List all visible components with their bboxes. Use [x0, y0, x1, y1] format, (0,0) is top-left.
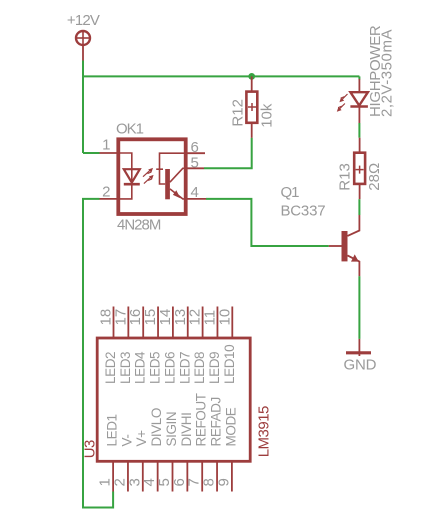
OK1 pin 1 — [100, 137, 118, 154]
label BC337 — [281, 202, 326, 219]
label LM3915 — [256, 406, 273, 457]
OK1 light arrows — [143, 168, 154, 184]
svg-text:10: 10 — [216, 309, 233, 326]
U3 top pin numbers — [98, 309, 234, 326]
svg-text:OK1: OK1 — [116, 121, 144, 138]
label 10k — [258, 103, 275, 128]
supply +12V — [67, 12, 100, 61]
wire +12V vertical rail — [82, 61, 84, 154]
svg-text:10k: 10k — [258, 103, 275, 128]
svg-text:REFADJ: REFADJ — [208, 397, 223, 446]
svg-text:4: 4 — [191, 184, 199, 201]
svg-text:LED10: LED10 — [222, 345, 237, 384]
wire R12 to OK1 pin 5 — [204, 138, 252, 168]
svg-text:BC337: BC337 — [281, 202, 326, 219]
wire Q1 emitter to GND — [358, 276, 360, 339]
label R13 — [336, 163, 353, 191]
svg-text:R13: R13 — [336, 163, 353, 191]
OK1 pin 5 — [187, 154, 204, 171]
svg-text:LED2: LED2 — [103, 352, 118, 384]
svg-text:V-: V- — [119, 435, 134, 447]
wire OK1 pin 2 to U3 pin 1 — [83, 199, 113, 508]
U3 bottom pin numbers — [97, 478, 233, 486]
U3 bottom pin names — [105, 393, 239, 446]
OK1 phototransistor — [156, 153, 187, 199]
wire LED to R13 — [358, 123, 360, 138]
svg-text:V+: V+ — [134, 430, 149, 447]
svg-text:LED8: LED8 — [192, 352, 207, 384]
OK1 pin 4 — [187, 184, 206, 201]
U3 top pin names LED2..LED10 — [103, 345, 237, 384]
svg-text:1: 1 — [102, 137, 110, 154]
svg-text:R12: R12 — [230, 99, 247, 127]
LED1 HIGHPOWER — [350, 79, 368, 123]
label R12 — [230, 99, 247, 127]
U3 top pin stubs 18..10 — [114, 307, 233, 339]
label HIGHPOWER — [367, 25, 384, 117]
OK1 internal LED — [118, 153, 140, 199]
svg-text:LED7: LED7 — [177, 352, 192, 384]
svg-text:GND: GND — [344, 356, 377, 373]
ground — [344, 339, 377, 373]
LED1 light arrows — [337, 94, 348, 112]
label 4N28M — [117, 217, 161, 234]
wire +12V horizontal rail — [83, 75, 359, 77]
svg-text:5: 5 — [191, 154, 199, 171]
svg-text:2: 2 — [102, 184, 110, 201]
svg-text:DIVLO: DIVLO — [149, 408, 164, 447]
svg-text:LM3915: LM3915 — [256, 406, 273, 457]
svg-text:LED3: LED3 — [118, 352, 133, 384]
svg-text:LED9: LED9 — [207, 352, 222, 384]
IC U3 LM3915 box — [97, 338, 250, 461]
label 28Ω — [366, 163, 383, 191]
svg-text:LED1: LED1 — [105, 414, 120, 446]
label Q1 — [281, 184, 300, 201]
wire R13 to Q1 collector — [358, 199, 360, 215]
svg-text:4N28M: 4N28M — [117, 217, 161, 234]
U3 bottom pin stubs 1..9 — [113, 461, 232, 491]
svg-text:SIGIN: SIGIN — [164, 412, 179, 447]
svg-text:+12V: +12V — [67, 12, 100, 29]
svg-text:U3: U3 — [81, 440, 98, 458]
svg-text:LED4: LED4 — [133, 351, 148, 384]
svg-text:9: 9 — [215, 478, 232, 486]
svg-text:LED6: LED6 — [162, 352, 177, 384]
OK1 pin 6 — [187, 139, 205, 156]
svg-text:Q1: Q1 — [281, 184, 300, 201]
wire LED branch from rail — [358, 76, 360, 79]
wire +12V rail to OK1 pin 1 — [83, 152, 100, 154]
label 2,2V-350mA — [379, 29, 396, 117]
label U3 — [81, 440, 98, 458]
OK1 pin 2 — [100, 184, 118, 201]
resistor R12 — [246, 76, 257, 137]
junction on +12V rail — [248, 73, 255, 80]
svg-text:MODE: MODE — [223, 407, 238, 446]
svg-text:2,2V-350mA: 2,2V-350mA — [379, 29, 396, 117]
transistor Q1 — [329, 215, 360, 276]
label OK1 — [116, 121, 144, 138]
wire OK1 pin 4 to Q1 base — [206, 199, 329, 246]
svg-text:DIVHI: DIVHI — [179, 412, 194, 446]
optocoupler OK1 box — [118, 139, 185, 214]
resistor R13 — [354, 138, 365, 200]
svg-text:REFOUT: REFOUT — [194, 393, 209, 446]
svg-text:LED5: LED5 — [148, 352, 163, 384]
svg-text:28Ω: 28Ω — [366, 163, 383, 191]
